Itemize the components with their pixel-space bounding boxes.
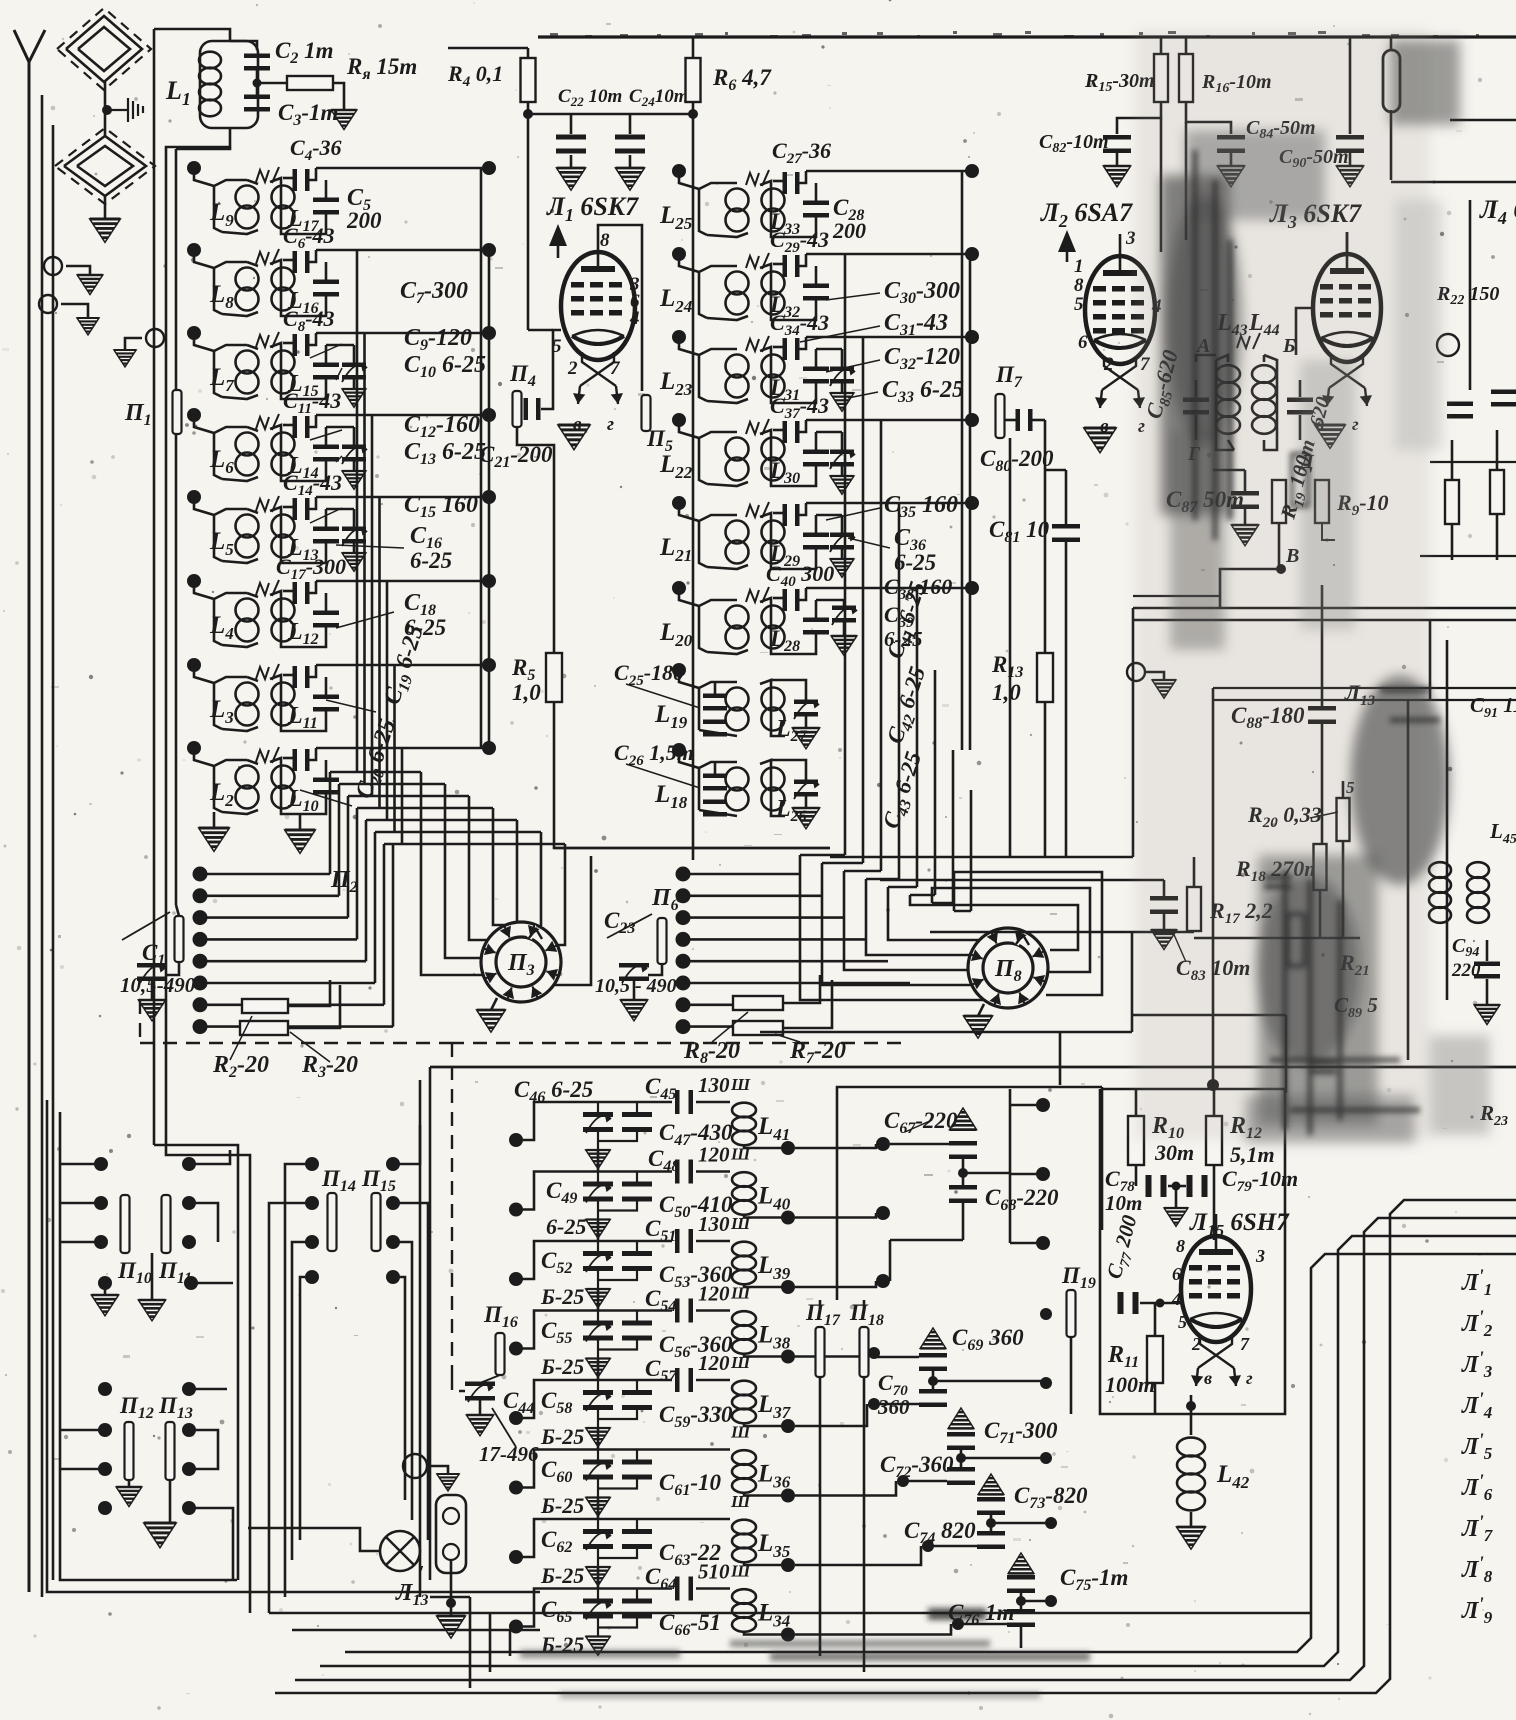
svg-text:1: 1 <box>1074 256 1084 277</box>
svg-text:5: 5 <box>1178 1312 1187 1332</box>
top bus tick marks <box>550 31 1479 38</box>
coupling cap C80 <box>975 419 996 421</box>
svg-text:C59-330: C59-330 <box>659 1402 733 1431</box>
series cap row L25 <box>773 180 783 183</box>
capacitor C54 120 <box>675 1299 693 1323</box>
svg-text:120: 120 <box>698 1351 730 1375</box>
padding cap row L7 <box>325 345 328 363</box>
tube Л15 6SH7 <box>1181 1214 1251 1342</box>
core mark row L4 <box>256 583 269 595</box>
svg-text:2: 2 <box>1103 354 1114 375</box>
svg-text:120: 120 <box>698 1282 730 1306</box>
row bus to right bus L2 <box>316 747 489 750</box>
svg-text:5,1т: 5,1т <box>1230 1142 1275 1167</box>
svg-text:C2410т: C2410т <box>629 86 688 109</box>
ground under Л2 <box>1084 428 1116 453</box>
svg-text:1,0: 1,0 <box>512 680 541 705</box>
coil L17 secondary <box>270 178 295 234</box>
П2 riser 4 <box>356 808 359 939</box>
pointer lines mid <box>826 293 880 300</box>
svg-text:6: 6 <box>1172 1264 1181 1284</box>
svg-text:R2-20: R2-20 <box>212 1052 269 1081</box>
svg-text:Б-25: Б-25 <box>540 1493 584 1518</box>
coil L23 input row <box>672 330 686 344</box>
capacitor C2 1т <box>244 54 270 71</box>
series cap row L7 <box>283 342 293 345</box>
grid cap wire over Л1 to П5 <box>598 225 642 391</box>
П2 riser 7 <box>383 844 386 1005</box>
capacitor C68 220 <box>949 1185 977 1203</box>
capacitor C71 300 <box>947 1432 975 1450</box>
long coupling line to right <box>1133 607 1516 610</box>
loop antenna W2 (lower diamond) <box>64 136 146 196</box>
coil L42 <box>1190 1414 1193 1435</box>
C67 block frame <box>837 1087 1102 1300</box>
C67 block left dots <box>876 1137 890 1151</box>
padding cap row L9 <box>325 180 328 198</box>
Л15 block frame <box>1102 1088 1285 1091</box>
core mark row L20 <box>746 590 759 602</box>
resistor R13 1,0 <box>1044 420 1047 653</box>
coil L29 secondary <box>707 565 748 569</box>
capacitor C79 10т <box>1187 1175 1208 1197</box>
series cap row L9 <box>283 177 293 180</box>
trimmer C4x row L19 <box>794 700 818 717</box>
svg-text:8: 8 <box>600 230 610 251</box>
rotary switch П8 feed bundle <box>800 854 845 857</box>
series cap row L24 <box>773 263 783 266</box>
П10/П11 right contacts <box>182 1157 196 1171</box>
mid bank right bus <box>961 171 964 750</box>
ground ladder row 1 <box>586 1150 610 1169</box>
svg-text:360: 360 <box>877 1395 910 1419</box>
chassis arrow above C67 <box>950 1108 977 1130</box>
trimmer row L6 <box>342 445 366 462</box>
svg-text:C69 360: C69 360 <box>952 1325 1024 1354</box>
svg-text:г: г <box>607 414 614 435</box>
chassis arrow above C69 <box>920 1328 946 1348</box>
svg-text:120: 120 <box>698 1143 730 1167</box>
svg-text:200: 200 <box>832 218 866 243</box>
chassis arrow above C71 <box>948 1408 974 1428</box>
svg-text:C32-120: C32-120 <box>884 344 960 373</box>
series cap row L22 <box>773 429 783 432</box>
svg-text:C80-200: C80-200 <box>980 446 1054 475</box>
П12 contacts <box>98 1382 112 1396</box>
svg-text:C72-360: C72-360 <box>880 1452 954 1481</box>
coil L2 input row <box>187 741 201 755</box>
core mark row L5 <box>256 499 269 511</box>
hump link lines <box>1133 595 1220 597</box>
svg-text:Л1 6SK7: Л1 6SK7 <box>546 192 639 225</box>
resistor R11 100т <box>1147 1336 1163 1383</box>
pointer lines to caps <box>310 344 342 358</box>
core mark row L9 <box>256 170 269 182</box>
right edge circle node <box>1437 334 1459 356</box>
mid bank feedback drop wires <box>844 254 847 855</box>
svg-text:30т: 30т <box>1154 1140 1194 1165</box>
svg-text:130: 130 <box>698 1212 730 1236</box>
coil L24 input row <box>672 247 686 261</box>
coil L37 <box>732 1381 756 1424</box>
left bank right bus <box>480 168 483 748</box>
svg-text:7: 7 <box>1240 1334 1250 1354</box>
wire L1 bottom <box>166 128 250 1613</box>
padding cap row L4 <box>325 593 328 611</box>
svg-text:Ш: Ш <box>730 1423 751 1442</box>
right mid verticals <box>1407 700 1410 1060</box>
svg-text:C4-36: C4-36 <box>290 135 342 164</box>
wire to C67 block <box>760 1031 1132 1034</box>
padding cap row L21 <box>815 515 818 533</box>
trimmer C4x row L18 <box>794 780 818 797</box>
padding cap row L5 <box>325 509 328 527</box>
wire R4 bottom to node <box>527 102 530 114</box>
trimmer row L22 <box>830 450 854 467</box>
wire А to Л2 plate <box>1196 355 1216 362</box>
nested frame line 2 <box>295 1218 1516 1680</box>
trimmer row L23 <box>830 367 854 384</box>
svg-text:C46 6-25: C46 6-25 <box>514 1077 593 1106</box>
coil L20 input row <box>672 581 686 595</box>
Л15 cathode to L42 <box>1190 1395 1193 1414</box>
ladder row C52 <box>509 1272 523 1286</box>
ground under П11 <box>151 1253 154 1300</box>
ground under L2/L10 <box>213 812 216 828</box>
wire L1 top to C2 <box>230 41 257 50</box>
core mark row L3 <box>256 667 269 679</box>
blurred scan band right side <box>1135 30 1490 1143</box>
capacitor C64 510 <box>675 1577 693 1601</box>
svg-text:C66-51: C66-51 <box>659 1610 721 1639</box>
svg-text:8: 8 <box>1074 275 1084 296</box>
core mark row L8 <box>256 252 269 264</box>
П15 contacts <box>386 1157 400 1171</box>
svg-text:Ш: Ш <box>730 1353 751 1372</box>
padding cap row L20 <box>815 600 818 618</box>
series cap row L23 <box>773 346 783 349</box>
wire C2/C3 junction to R <box>256 70 259 95</box>
row bus to right bus L22 <box>806 419 970 422</box>
coil L25 input row <box>672 164 686 178</box>
tube Л2 6SA7 <box>1085 234 1155 364</box>
loop antenna stem + junction <box>104 82 107 136</box>
antenna input jack 2 <box>39 295 57 313</box>
svg-text:3: 3 <box>1125 228 1136 249</box>
core mark row L22 <box>746 422 759 434</box>
svg-text:C82-10т: C82-10т <box>1039 131 1109 156</box>
svg-text:Rя 15т: Rя 15т <box>346 54 417 83</box>
ladder top bus <box>430 1066 1516 1069</box>
svg-text:Ш: Ш <box>730 1214 751 1233</box>
ground ladder row 4 <box>586 1359 610 1378</box>
svg-text:C35 160: C35 160 <box>884 492 958 521</box>
padding cap row L3 <box>325 677 328 695</box>
coil L36 <box>732 1450 756 1493</box>
svg-text:8: 8 <box>1176 1236 1185 1256</box>
capacitor C51 130 <box>675 1229 693 1253</box>
capacitor C73 820 <box>977 1497 1005 1515</box>
row bus to right bus L23 <box>806 336 970 339</box>
ground under П10 col <box>104 1283 107 1295</box>
nested frame line 1 <box>275 1200 1516 1693</box>
coil L13 secondary <box>270 507 295 563</box>
ground ladder row 8 <box>586 1637 610 1656</box>
chassis arrow above C75 <box>1008 1553 1034 1573</box>
nested frame line 4 <box>345 1254 1516 1652</box>
core mark row L7 <box>256 335 269 347</box>
coil L16 secondary <box>270 260 295 316</box>
wire П7 column down <box>1009 438 1012 857</box>
svg-text:C31-43: C31-43 <box>884 310 948 339</box>
resistor R6 4,7 <box>692 37 695 60</box>
ground ladder row 3 <box>586 1289 610 1308</box>
ground under П3 <box>491 998 497 1010</box>
row bus to right bus L24 <box>806 253 970 256</box>
svg-text:510: 510 <box>698 1560 730 1584</box>
svg-text:Ш: Ш <box>730 1075 751 1094</box>
coil L33 secondary <box>707 233 748 237</box>
rotary switch П3 feed bundle <box>421 772 483 975</box>
svg-text:C2 1т: C2 1т <box>275 38 333 67</box>
left col verticals to bottom <box>41 1596 44 1599</box>
svg-text:C22 10т: C22 10т <box>558 86 622 109</box>
ladder row C49 <box>509 1203 523 1217</box>
svg-text:C25-180: C25-180 <box>614 660 684 689</box>
right edge wires upper <box>1469 200 1472 390</box>
svg-text:4: 4 <box>629 308 640 329</box>
coil L30 secondary <box>707 482 748 486</box>
right edge caps <box>1447 402 1473 419</box>
coil L14 secondary <box>270 425 295 481</box>
top supply bus <box>538 35 1516 38</box>
row bus to right bus L9 <box>316 167 489 170</box>
ground under lower diamond <box>104 196 107 219</box>
capacitor C75 1т <box>1007 1575 1035 1593</box>
core mark row L6 <box>256 417 269 429</box>
row bus to right bus L21 <box>806 502 970 505</box>
svg-text:7: 7 <box>610 358 621 379</box>
transformer L43 winding <box>1216 360 1234 450</box>
coil L41 <box>732 1103 756 1146</box>
pilot lamp Л13' <box>380 1531 420 1571</box>
nested frame line 3 <box>320 1236 1516 1666</box>
series cap row L21 <box>773 512 783 515</box>
trimmer row L21 <box>830 533 854 550</box>
svg-text:C61-10: C61-10 <box>659 1470 722 1499</box>
node В <box>1276 564 1286 574</box>
svg-text:C73-820: C73-820 <box>1014 1483 1088 1512</box>
switch П5 <box>642 395 651 431</box>
coil L6 input row <box>187 408 201 422</box>
series cap row L5 <box>283 506 293 509</box>
П2 riser 8 <box>392 844 395 1027</box>
svg-text:200: 200 <box>346 208 382 233</box>
ground under П8 <box>978 1004 984 1016</box>
svg-text:C27-36: C27-36 <box>772 138 831 167</box>
П14/П15 wires <box>285 1164 312 1597</box>
coil L34 <box>732 1589 756 1632</box>
trimmer row L5 <box>342 527 366 544</box>
П10-П13 block frame <box>60 1112 237 1580</box>
svg-text:R6 4,7: R6 4,7 <box>712 65 772 94</box>
coil L18 <box>672 743 686 757</box>
svg-text:1,0: 1,0 <box>992 680 1021 705</box>
resistor R16 10т <box>1185 37 1188 54</box>
resistor R2-20 <box>242 999 288 1013</box>
svg-text:в: в <box>1204 1368 1212 1388</box>
ground under Л1 cathode <box>558 425 590 450</box>
jack circle near R17 <box>1127 663 1145 681</box>
coil L40 <box>732 1172 756 1215</box>
svg-text:C9-120: C9-120 <box>404 325 472 354</box>
row bus to right bus L7 <box>316 332 489 335</box>
padding cap row L23 <box>815 349 818 367</box>
svg-text:Л2 6SA7: Л2 6SA7 <box>1040 198 1133 231</box>
row bus to right bus L25 <box>806 170 970 173</box>
resistor R7-20 <box>733 1021 783 1035</box>
padding cap row L24 <box>815 266 818 284</box>
coil L32 secondary <box>707 316 748 320</box>
svg-text:C30-300: C30-300 <box>884 278 960 307</box>
row bus to right bus L20 <box>806 587 970 590</box>
ground ladder row 5 <box>586 1428 610 1447</box>
resistor R10 30т <box>1128 1116 1144 1165</box>
ground ladder row 6 <box>586 1498 610 1517</box>
resistor R12 5,1т <box>1206 1116 1222 1165</box>
right edge components <box>1383 50 1400 112</box>
svg-text:Б-25: Б-25 <box>540 1354 584 1379</box>
svg-text:C3-1т: C3-1т <box>278 100 338 129</box>
transformer L44 winding <box>1263 355 1266 362</box>
tube Л1 6SK7 <box>561 230 635 360</box>
svg-text:Л15 6SH7: Л15 6SH7 <box>1189 1209 1290 1240</box>
svg-text:6: 6 <box>1078 332 1088 353</box>
svg-text:3: 3 <box>1255 1246 1265 1266</box>
svg-text:Б-25: Б-25 <box>540 1284 584 1309</box>
core mark row L24 <box>746 256 759 268</box>
AVC arrow at Л1 <box>549 224 567 246</box>
coil L12 secondary <box>270 591 295 647</box>
coil L10 secondary <box>270 758 295 814</box>
coil L26 secondary <box>760 760 785 816</box>
right edge lower ladder area <box>1446 640 1449 1000</box>
frame left risers <box>469 1597 472 1688</box>
coil L19 <box>672 663 686 677</box>
bottom inner connections <box>430 1596 470 1599</box>
П2 riser 2 <box>338 784 341 896</box>
coil L9 input row <box>187 161 201 175</box>
padding cap row L2 <box>325 760 328 778</box>
resistor R9 <box>1315 480 1329 523</box>
ground jack 3 <box>146 329 164 347</box>
variable capacitor C44 17-496 <box>465 1382 495 1401</box>
bottom bus frame lines <box>237 1579 430 1581</box>
grounds under П12/П13 <box>128 1480 131 1487</box>
svg-text:10т: 10т <box>1105 1191 1142 1215</box>
row bus to right bus L3 <box>316 664 489 667</box>
svg-text:C74 820: C74 820 <box>904 1518 976 1547</box>
padding cap row L8 <box>325 262 328 280</box>
П14 contacts <box>305 1157 319 1171</box>
resistor R3-20 <box>240 1021 288 1035</box>
loop antenna W1 (upper diamond) <box>66 16 142 82</box>
svg-text:C33 6-25: C33 6-25 <box>882 377 964 406</box>
core mark row L23 <box>746 339 759 351</box>
ground under L42 <box>1177 1527 1206 1549</box>
antenna input jack 1 <box>44 257 62 275</box>
capacitor C45 130 <box>675 1090 693 1114</box>
ground ladder row 2 <box>586 1220 610 1239</box>
coil L35 <box>732 1520 756 1563</box>
series cap row L6 <box>283 424 293 427</box>
capacitor C76 1т <box>1007 1609 1035 1627</box>
svg-text:C7-300: C7-300 <box>400 278 468 307</box>
wire П8 output to R17 <box>930 931 1194 934</box>
ladder row C65 <box>509 1620 523 1634</box>
П12/П13 right contacts <box>182 1382 196 1396</box>
right lower wires <box>1213 699 1516 701</box>
П10 contacts <box>94 1157 108 1171</box>
resistor R4 <box>527 48 530 60</box>
coil L11 secondary <box>270 675 295 731</box>
coil L28 secondary <box>707 650 748 654</box>
coil L15 secondary <box>270 343 295 399</box>
switch П2 contact rows <box>193 867 208 882</box>
coil L38 <box>732 1311 756 1354</box>
coil L1 <box>200 41 258 128</box>
svg-text:C71-300: C71-300 <box>984 1418 1058 1447</box>
svg-text:г: г <box>1246 1368 1253 1388</box>
row bus to right bus L8 <box>316 249 489 252</box>
svg-text:C67-220: C67-220 <box>884 1108 958 1137</box>
padding cap row L6 <box>325 427 328 445</box>
coil L4 input row <box>187 574 201 588</box>
coil L22 input row <box>672 413 686 427</box>
svg-text:Л4 6: Л4 6 <box>1479 195 1516 228</box>
padding cap row L22 <box>815 432 818 450</box>
core mark row L25 <box>746 173 759 185</box>
svg-text:Ш: Ш <box>730 1145 751 1164</box>
svg-text:C75-1т: C75-1т <box>1060 1565 1128 1594</box>
AVC arrow at Л2 <box>1058 230 1076 252</box>
capacitor C74 820 <box>977 1531 1005 1549</box>
ladder row C62 <box>509 1550 523 1564</box>
coil L39 <box>732 1242 756 1285</box>
ladder row C46 <box>509 1133 523 1147</box>
svg-text:Б-25: Б-25 <box>540 1424 584 1449</box>
svg-text:Ш: Ш <box>730 1562 751 1581</box>
svg-text:C68-220: C68-220 <box>985 1185 1059 1214</box>
left bank feedback drop wires <box>356 250 359 772</box>
rotary switch П3 <box>481 922 561 1002</box>
svg-text:R3-20: R3-20 <box>301 1052 358 1081</box>
coil L31 secondary <box>707 399 748 403</box>
chassis arrow above C73 <box>978 1474 1004 1494</box>
ladder row C58 <box>509 1411 523 1425</box>
svg-text:100т: 100т <box>1105 1372 1155 1397</box>
antenna <box>14 30 29 1592</box>
coil L21 input row <box>672 496 686 510</box>
ground after resistor <box>333 83 344 110</box>
capacitor C77 <box>1118 1292 1139 1314</box>
series cap row L8 <box>283 259 293 262</box>
feedback bus under banks <box>830 856 1066 859</box>
coil L3 input row <box>187 658 201 672</box>
connector block <box>436 1495 466 1573</box>
svg-text:Ш: Ш <box>730 1284 751 1303</box>
ladder row C55 <box>509 1342 523 1356</box>
